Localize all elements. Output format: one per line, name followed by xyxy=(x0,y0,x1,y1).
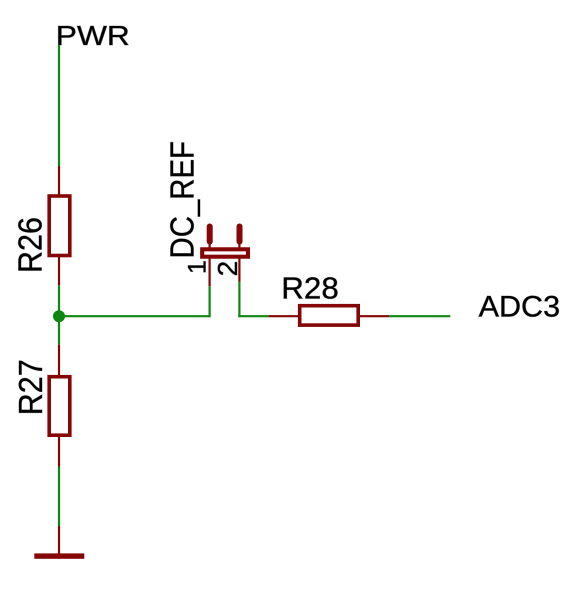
jumper SJ pin 2 xyxy=(237,224,243,282)
svg-text:DC_REF: DC_REF xyxy=(164,141,201,259)
wire to ADC3 xyxy=(389,315,450,317)
svg-text:R28: R28 xyxy=(281,270,339,305)
node junction dot xyxy=(53,310,65,322)
svg-text:R27: R27 xyxy=(12,359,49,415)
resistor R28 xyxy=(268,306,389,325)
wire horizontal left xyxy=(59,315,210,317)
jumper SJ pin 1 xyxy=(207,224,213,287)
svg-text:R26: R26 xyxy=(11,217,48,273)
resistor R26 xyxy=(49,166,70,285)
svg-text:2: 2 xyxy=(212,261,243,277)
svg-text:ADC3: ADC3 xyxy=(479,290,560,323)
wire junction vertical xyxy=(58,285,60,344)
ground xyxy=(34,526,84,559)
wire pin2 drop xyxy=(238,282,240,318)
svg-text:1: 1 xyxy=(184,260,212,274)
svg-text:PWR: PWR xyxy=(56,20,130,51)
wire to ground xyxy=(58,467,60,527)
wire PWR vertical xyxy=(58,45,60,166)
resistor R27 xyxy=(49,345,70,467)
wire pin1 drop xyxy=(209,286,211,317)
jumper DC_REF body bar xyxy=(202,249,248,256)
wire horizontal right xyxy=(238,315,268,317)
